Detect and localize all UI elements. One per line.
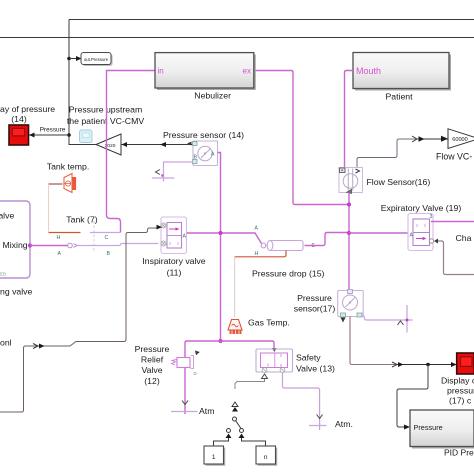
wire nebulizer in to tank C [107, 71, 156, 233]
svg-text:Mouth: Mouth [356, 66, 381, 76]
svg-text:Expiratory Valve (19): Expiratory Valve (19) [381, 203, 462, 213]
svg-text:Valve: Valve [141, 365, 162, 375]
block expiratory valve [408, 214, 438, 251]
block relief valve [172, 351, 200, 377]
wire const n to switch [242, 438, 266, 446]
junction node at display tap [67, 133, 71, 137]
svg-text:Pressure: Pressure [40, 127, 66, 134]
svg-text:PID Press: PID Press [444, 448, 474, 458]
svg-text:n: n [264, 454, 268, 461]
atm bar safety [309, 425, 327, 427]
temperature sensor icon [64, 174, 76, 193]
svg-text:Mixing: Mixing [3, 240, 28, 250]
svg-text:H: H [255, 251, 259, 257]
block PID [410, 410, 474, 449]
wire const 1 to switch [214, 438, 229, 446]
block red display (14) [9, 125, 29, 145]
wire main node to expiratory valve [349, 232, 408, 234]
wire to out.Pressure block [69, 58, 77, 60]
wire sensor17 output signal [350, 317, 397, 365]
svg-text:Flow VC-: Flow VC- [436, 152, 472, 162]
switch arrows [232, 402, 238, 407]
svg-text:ng valve: ng valve [0, 287, 33, 297]
junction ex node [347, 202, 351, 206]
wire to relief valve [185, 341, 221, 414]
junction mixing output [28, 243, 32, 247]
svg-text:Pressure: Pressure [135, 344, 170, 354]
wire to display of pressure [29, 134, 69, 136]
svg-text:(12): (12) [144, 376, 160, 386]
svg-text:Gas Temp.: Gas Temp. [248, 318, 290, 328]
svg-text:B: B [107, 251, 111, 257]
wire temp sensor stub [49, 183, 63, 185]
wire nebulizer ex down [254, 71, 349, 205]
svg-text:Atm.: Atm. [335, 419, 353, 429]
wire to safety valve [221, 341, 275, 351]
svg-text:Cha: Cha [456, 233, 472, 243]
svg-text:Relief: Relief [141, 355, 164, 365]
gain 60000 [448, 129, 474, 149]
block constant 1 [204, 446, 225, 466]
wire top bus upper [69, 19, 474, 21]
junction display17 [426, 363, 430, 367]
block constant n [256, 446, 277, 466]
svg-text:EB: EB [0, 272, 6, 277]
block mixing valve (cut) [0, 201, 30, 278]
svg-text:(17) c: (17) c [449, 396, 472, 406]
atm bar sensor17 [406, 305, 408, 333]
wire pressure drop E to main node [305, 233, 350, 246]
wire flow sensor signal to gain [357, 139, 418, 168]
wire junction to valves row [218, 339, 222, 343]
svg-text:Pressure upstream: Pressure upstream [69, 105, 142, 115]
svg-text:A: A [410, 233, 414, 239]
atm bar sensor14 [152, 177, 175, 179]
svg-text:Tank (7): Tank (7) [66, 215, 97, 225]
wire main vertical feedback [69, 20, 96, 145]
svg-text:(11): (11) [167, 268, 182, 278]
svg-text:Pressure sensor (14): Pressure sensor (14) [163, 130, 244, 140]
wire mixing to tank A [30, 245, 68, 247]
wire pressure drop H to gas temp [235, 251, 286, 257]
wire safety valve signal down [235, 379, 265, 390]
block nebulizer [155, 53, 256, 90]
block red display (17) [457, 353, 474, 374]
svg-text:onl: onl [0, 338, 12, 348]
wire mouth to flow sensor [345, 71, 354, 168]
wire control signal [0, 228, 157, 412]
svg-text:Patient: Patient [386, 92, 414, 102]
wire thermal to tank H [48, 185, 50, 232]
svg-text:Pressure: Pressure [297, 293, 332, 303]
svg-text:Flow Sensor(16): Flow Sensor(16) [367, 177, 431, 187]
svg-text:Pressure: Pressure [414, 423, 443, 432]
atm bar relief [171, 411, 198, 413]
svg-text:Display o: Display o [441, 376, 474, 386]
block pressure sensor (17) [338, 290, 364, 323]
block pressure drop pipe [255, 226, 316, 258]
wire flow sensor down [348, 193, 350, 292]
svg-text:sensor(17): sensor(17) [294, 304, 336, 314]
svg-text:Nebulizer: Nebulizer [194, 91, 231, 101]
block patient [353, 53, 451, 91]
manual switch [227, 417, 244, 433]
svg-text:in: in [158, 67, 164, 76]
svg-text:(14): (14) [11, 114, 27, 124]
svg-text:Safety: Safety [296, 353, 321, 363]
wire display17 to PID [397, 365, 428, 428]
wire top bus lower full width [0, 37, 474, 39]
block inspiratory valve [161, 217, 187, 254]
wire expiratory valve port3 [431, 221, 474, 223]
junction main node [347, 231, 351, 235]
tank A check symbol [68, 243, 73, 248]
wire sensor14 to gain [121, 144, 193, 146]
svg-text:A: A [255, 226, 259, 232]
wire sensor14 B to atm [164, 162, 194, 182]
svg-text:pressure: pressure [447, 386, 474, 396]
gas temp source icon [228, 320, 242, 335]
svg-text:ay of pressure: ay of pressure [0, 104, 55, 114]
svg-text:Tank temp.: Tank temp. [47, 162, 90, 172]
junction valveA [218, 231, 222, 235]
block flow sensor (16) [339, 168, 363, 195]
svg-text:3: 3 [430, 214, 433, 220]
svg-text:the patient VC-CMV: the patient VC-CMV [67, 116, 144, 126]
svg-text:C: C [105, 235, 109, 241]
converter icon [80, 130, 93, 143]
svg-text:H: H [57, 235, 61, 241]
svg-text:Valve (13): Valve (13) [296, 364, 335, 374]
svg-text:Inspiratory valve: Inspiratory valve [142, 256, 205, 266]
svg-text:B: B [194, 155, 198, 161]
tank vessel icon [93, 221, 95, 252]
svg-text:Atm: Atm [199, 406, 214, 416]
junction node at out.Pressure tap [67, 57, 71, 61]
svg-text:valve: valve [0, 211, 14, 221]
svg-text:D: D [194, 371, 197, 376]
block safety valve [256, 349, 293, 372]
wire sensor17 B to atm [361, 316, 413, 320]
wire tank C port [90, 232, 121, 234]
wire inspiratory valve A to junction [187, 233, 262, 244]
gain 1020 [96, 134, 121, 155]
svg-text:Pressure drop (15): Pressure drop (15) [252, 269, 325, 279]
wire sensor14 A port down [218, 153, 221, 342]
wire tank B to inspiratory valve B [77, 244, 159, 246]
block pressure sensor (14) [187, 141, 218, 166]
svg-text:A: A [58, 251, 62, 257]
svg-text:A: A [211, 152, 215, 158]
svg-text:60000: 60000 [452, 137, 468, 143]
svg-text:ex: ex [243, 67, 251, 76]
svg-text:A: A [183, 234, 187, 240]
svg-text:1: 1 [212, 454, 216, 461]
block out.Pressure [81, 53, 113, 67]
wire expiratory valve B out [438, 241, 474, 275]
svg-text:out.Pressure: out.Pressure [84, 57, 109, 62]
wire safety valve B to atm [283, 372, 320, 430]
